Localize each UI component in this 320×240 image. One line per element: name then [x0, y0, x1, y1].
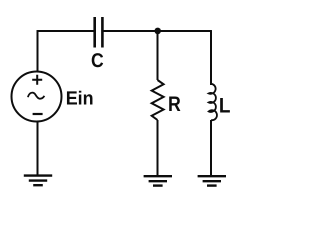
ground (inductor) [198, 176, 226, 185]
wire resistor to ground [157, 120, 159, 176]
svg-text:C: C [91, 50, 104, 72]
wire junction down to resistor [157, 31, 159, 80]
wire capacitor to junction [104, 30, 158, 32]
ground (source) [24, 176, 52, 186]
source Ein circle [12, 72, 62, 122]
wire source to ground [37, 122, 39, 176]
capacitor C1 left plate [93, 17, 96, 48]
wire right vertical (corner down to inductor) [210, 30, 212, 85]
wire left vertical (top wire down to source) [37, 30, 39, 71]
wire top-left horizontal (source to capacitor) [38, 30, 94, 32]
svg-text:Ein: Ein [66, 88, 94, 109]
node junction dot [154, 28, 161, 35]
svg-text:R: R [168, 93, 181, 116]
wire inductor to ground [210, 120, 212, 176]
source sine wave [28, 93, 45, 99]
ground (resistor) [144, 176, 172, 185]
wire junction to top-right corner [158, 30, 212, 32]
source minus sign [33, 113, 43, 115]
svg-text:L: L [219, 95, 231, 118]
inductor L1 coil [209, 84, 217, 120]
resistor R1 zigzag [152, 80, 164, 120]
source plus sign [32, 75, 42, 85]
capacitor C1 right plate [101, 17, 104, 48]
